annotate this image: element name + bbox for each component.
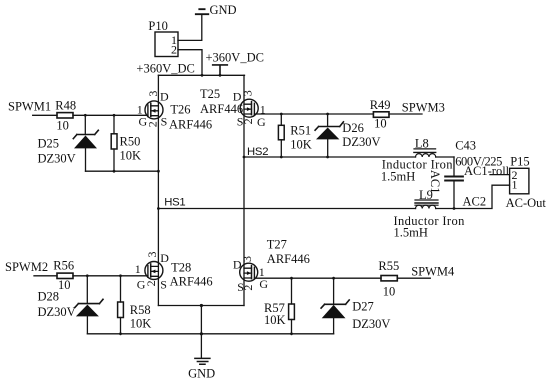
svg-text:T28: T28 (171, 261, 191, 275)
svg-text:R51: R51 (290, 123, 311, 137)
zener diode D25 (73, 115, 98, 171)
svg-text:R50: R50 (120, 135, 141, 149)
wire R56 to T28 gate (73, 275, 148, 277)
capacitor C43 (445, 138, 476, 208)
svg-text:10: 10 (383, 285, 396, 299)
wire AC2 (L9 to P15 pin1) (436, 185, 510, 208)
junction rail / GND stem (200, 332, 203, 335)
wire L8 to C43 top (436, 156, 454, 158)
svg-text:D28: D28 (38, 290, 60, 304)
wire AC1 to P15 pin2 (490, 174, 510, 176)
svg-text:1.5mH: 1.5mH (394, 226, 428, 240)
svg-text:10: 10 (58, 278, 71, 292)
svg-text:R58: R58 (130, 303, 151, 317)
junction HS2 / D26 (326, 156, 329, 159)
resistor R51 (278, 114, 311, 157)
ground GND top symbol (196, 9, 209, 14)
svg-text:D25: D25 (38, 136, 60, 150)
junction gate wire / R51 (280, 113, 283, 116)
wire T27 gate to R55 (254, 277, 381, 279)
svg-text:2: 2 (144, 280, 158, 286)
svg-text:2: 2 (146, 121, 160, 127)
junction HS2 / T25 source (243, 156, 246, 159)
svg-text:+360V_DC: +360V_DC (206, 50, 264, 64)
svg-text:DZ30V: DZ30V (38, 152, 76, 166)
svg-text:S: S (161, 114, 168, 128)
resistor R48 (55, 98, 76, 118)
svg-text:DZ30V: DZ30V (352, 317, 390, 331)
wire P10 pin1 to top GND (178, 15, 202, 40)
wire R49 to SPWM3 (389, 113, 422, 115)
ground GND bottom symbol (195, 358, 210, 364)
svg-text:ARF446: ARF446 (169, 117, 212, 131)
svg-text:AC1-roll: AC1-roll (464, 164, 510, 178)
svg-text:3: 3 (146, 91, 160, 97)
junction lower wire / source line (157, 170, 160, 173)
resistor R56 (53, 259, 74, 279)
svg-text:ARF446: ARF446 (267, 252, 310, 266)
svg-text:G: G (259, 277, 268, 291)
svg-text:2: 2 (241, 285, 255, 291)
svg-text:HS2: HS2 (247, 146, 268, 158)
svg-text:3: 3 (241, 90, 255, 96)
svg-text:P10: P10 (148, 19, 167, 33)
svg-text:P15: P15 (510, 155, 529, 169)
svg-text:10K: 10K (130, 317, 152, 331)
svg-text:10K: 10K (264, 313, 286, 327)
junction gate wire / D25 (84, 114, 87, 117)
wire P10 pin2 to +360V rail (178, 50, 202, 76)
svg-text:DZ30V: DZ30V (38, 305, 76, 319)
wire GND stem (200, 306, 202, 358)
junction gate wire / R57 (290, 277, 293, 280)
zener diode D28 (75, 276, 103, 334)
svg-text:C43: C43 (455, 138, 476, 152)
junction rail / R58 (119, 332, 122, 335)
svg-text:R49: R49 (370, 98, 391, 112)
svg-text:3: 3 (240, 256, 254, 262)
svg-text:10: 10 (56, 119, 69, 133)
wire SPWM2 stub (34, 275, 57, 277)
inductor L8 (414, 136, 436, 157)
wire SPWM1 stub (33, 114, 57, 116)
junction gate wire / D27 (332, 277, 335, 280)
connector P10 (148, 19, 178, 57)
svg-text:DZ30V: DZ30V (342, 135, 380, 149)
wire HS1 (T26 source to L9) (158, 208, 415, 210)
svg-text:AC-Out: AC-Out (506, 196, 547, 210)
junction source wire / GND stem (200, 304, 203, 307)
svg-text:1: 1 (135, 262, 141, 276)
svg-text:3: 3 (145, 252, 159, 258)
wire D25/R50 bottoms to T26 source (86, 170, 159, 172)
zener diode D27 (321, 278, 349, 334)
resistor R50 (111, 115, 140, 171)
wire R55 to SPWM4 (397, 277, 430, 279)
svg-text:R55: R55 (378, 259, 399, 273)
svg-text:10K: 10K (290, 138, 312, 152)
transistor T25 (240, 75, 258, 305)
svg-text:SPWM2: SPWM2 (5, 260, 48, 274)
wire +360V rail (158, 74, 244, 76)
svg-text:10K: 10K (120, 149, 142, 163)
resistor R55 (378, 259, 399, 281)
svg-text:D26: D26 (342, 121, 364, 135)
transistor T26 (145, 75, 163, 305)
inductor L9 (415, 188, 438, 209)
junction HS2 / R51 (280, 156, 283, 159)
svg-text:GND: GND (188, 366, 215, 380)
svg-text:2: 2 (171, 43, 177, 57)
power bar symbol +360V_DC (213, 65, 228, 75)
junction gate wire / R50 (113, 114, 116, 117)
connector P15 (510, 155, 530, 194)
svg-text:10: 10 (374, 117, 387, 131)
junction rail/power bar (219, 74, 222, 77)
wire T28 source to T27 source (158, 305, 244, 307)
junction AC2 / C43 (453, 207, 456, 210)
svg-text:AC2: AC2 (463, 195, 487, 209)
wire bottom return rail (87, 333, 333, 335)
svg-text:T26: T26 (170, 102, 190, 116)
junction rail/P10 (201, 74, 204, 77)
zener diode D26 (315, 114, 343, 157)
resistor R49 (370, 98, 391, 117)
junction HS1 / T26 source (157, 207, 160, 210)
svg-text:HS1: HS1 (164, 197, 185, 209)
resistor R57 (264, 278, 294, 334)
svg-text:GND: GND (210, 3, 237, 17)
svg-text:SPWM1: SPWM1 (8, 100, 51, 114)
svg-text:D: D (160, 251, 169, 265)
svg-text:D: D (160, 90, 169, 104)
svg-text:R56: R56 (53, 259, 74, 273)
junction lower wire / R50 (113, 170, 116, 173)
svg-text:SPWM3: SPWM3 (402, 101, 445, 115)
transistor T28 (145, 262, 163, 280)
svg-text:SPWM4: SPWM4 (411, 265, 455, 279)
svg-text:1.5mH: 1.5mH (381, 169, 415, 183)
svg-text:+360V_DC: +360V_DC (136, 61, 194, 75)
resistor R58 (118, 276, 151, 334)
svg-text:T25: T25 (200, 87, 220, 101)
svg-text:2: 2 (241, 118, 255, 124)
junction rail / R57 (290, 332, 293, 335)
svg-text:S: S (160, 277, 167, 291)
svg-text:ARF446: ARF446 (170, 275, 213, 289)
junction gate wire / D26 (326, 113, 329, 116)
svg-text:R48: R48 (55, 98, 76, 112)
junction gate wire / D28 (86, 274, 89, 277)
svg-text:T27: T27 (267, 238, 287, 252)
svg-text:1: 1 (512, 177, 518, 191)
transistor T27 (240, 263, 258, 281)
wire R48 to T26 gate (73, 114, 148, 116)
wire HS2 (T25 source to L8) (244, 156, 416, 158)
svg-text:D27: D27 (352, 300, 374, 314)
wire T25 gate to R49 (254, 113, 373, 115)
svg-text:G: G (257, 115, 266, 129)
junction gate wire / R58 (119, 274, 122, 277)
